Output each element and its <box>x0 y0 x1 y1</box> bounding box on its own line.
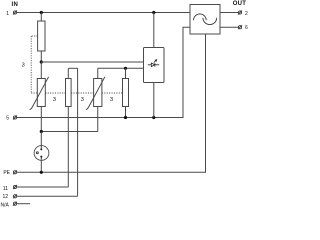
wire rail2 to monitor <box>41 61 143 63</box>
svg-text:N/A: N/A <box>0 202 9 208</box>
node junction C <box>40 130 43 133</box>
wire rail1 L-in from terminal 1 to filter box <box>17 12 190 14</box>
node junction A/F3 <box>124 67 127 70</box>
svg-text:2: 2 <box>245 11 248 17</box>
terminal N/A <box>13 202 17 206</box>
wire filter to terminal 2 <box>220 12 238 14</box>
terminal PE <box>13 170 17 174</box>
svg-text:PE: PE <box>3 170 10 176</box>
node junction rail2 <box>40 60 43 63</box>
fuse F3 <box>123 68 129 117</box>
terminal 6 <box>238 25 242 29</box>
wire terminal 12 to signal leg <box>17 195 78 197</box>
node junction rail1/monitor <box>152 11 155 14</box>
node junction PE/GDT <box>40 171 43 174</box>
LED indicator symbol <box>148 59 159 67</box>
svg-text:3: 3 <box>81 97 84 103</box>
svg-text:3: 3 <box>110 97 113 103</box>
varistor V2 <box>86 68 105 131</box>
terminal 11 <box>13 185 17 189</box>
varistor V1 <box>30 62 49 132</box>
svg-text:IN: IN <box>11 2 18 8</box>
wire terminal 11 to F2 <box>17 186 69 188</box>
node junction N/monitor <box>152 116 155 119</box>
svg-text:1: 1 <box>6 11 9 17</box>
GDT electrode tips and gas dot <box>36 148 42 157</box>
svg-text:5: 5 <box>6 115 9 121</box>
wire filter to terminal 6 <box>220 26 238 28</box>
gas discharge tube GDT1 <box>34 132 49 173</box>
terminal 12 <box>13 194 17 198</box>
svg-text:6: 6 <box>245 25 248 31</box>
terminal 2 <box>238 11 242 15</box>
wire rail N (terminal 5) to filter <box>17 27 190 117</box>
wire node A: V2 top to monitor with F3 tap <box>98 67 144 69</box>
svg-text:3: 3 <box>22 63 25 69</box>
filter sine symbol <box>194 14 217 25</box>
svg-text:12: 12 <box>2 194 8 200</box>
node junction N/F3 <box>124 116 127 119</box>
terminal 1 <box>13 11 17 15</box>
monitor U1 box with LED diode <box>144 13 165 118</box>
wire node C rail <box>41 131 97 133</box>
linkage dashed from F1 <box>31 36 37 93</box>
wire filter bottom to PE rail <box>17 34 206 172</box>
filter U2 box <box>190 5 220 35</box>
svg-text:3: 3 <box>53 97 56 103</box>
fuse F1 <box>38 13 45 63</box>
svg-text:OUT: OUT <box>233 1 247 7</box>
disconnector F2 <box>66 68 78 187</box>
terminal 5 <box>13 116 17 120</box>
linkage dashed horizontal <box>31 92 122 94</box>
svg-text:11: 11 <box>3 186 8 192</box>
wire N/A stub <box>17 203 30 205</box>
node junction rail1/F1 <box>40 11 43 14</box>
wire signal leg to terminal 12 and node C <box>77 68 79 196</box>
